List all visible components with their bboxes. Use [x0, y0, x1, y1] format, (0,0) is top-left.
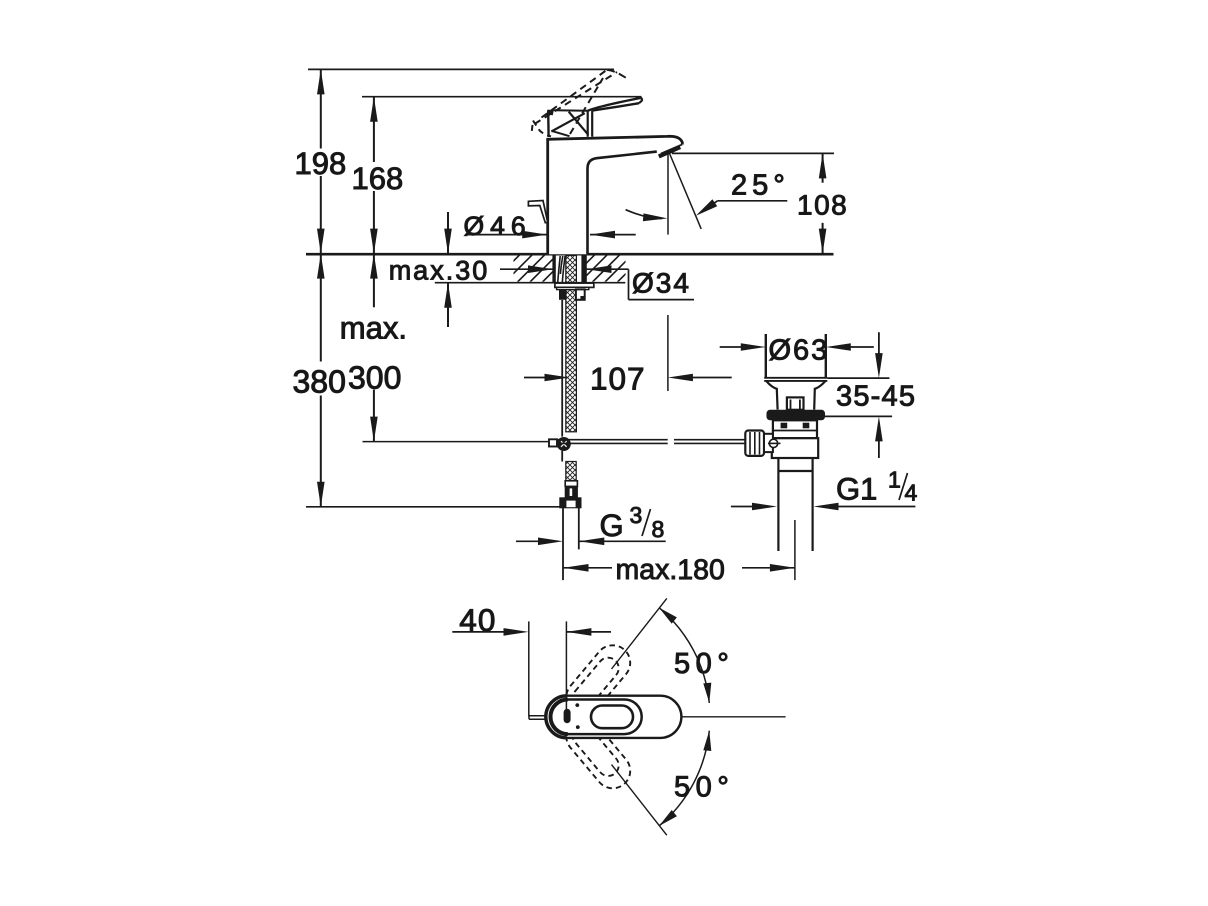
- rod connector: [764, 434, 773, 452]
- svg-text:Ø46: Ø46: [463, 211, 531, 241]
- drain plug block: [787, 397, 804, 409]
- handle lever top edge: [588, 98, 641, 111]
- dashed raised handle lever lower edge: [535, 72, 618, 124]
- ball joint: [557, 437, 571, 451]
- 40 extension line right: [565, 621, 567, 709]
- spout height reference line: [672, 152, 834, 154]
- plan outer left arc emphasis: [546, 696, 567, 738]
- drain main body: [772, 438, 818, 458]
- svg-text:198: 198: [294, 146, 346, 181]
- handle lever blade fill: [588, 98, 642, 111]
- plan handle capsule: [551, 700, 642, 735]
- svg-text:max.: max.: [340, 311, 407, 346]
- threaded stud in counter: [566, 255, 577, 282]
- dimension max.180: [564, 567, 795, 569]
- plan dashed handle down: [559, 712, 637, 796]
- drain neck taper: [767, 381, 826, 409]
- plan screw dots: [575, 703, 579, 707]
- G3/8 pipe walls: [563, 508, 579, 580]
- dimension G3/8: [516, 540, 666, 542]
- drain upper body: [773, 420, 817, 438]
- svg-text:40: 40: [459, 602, 496, 638]
- 25 degree label and leader: [705, 201, 787, 210]
- spout underside and body inner edge: [588, 152, 657, 255]
- counter hatch left: [493, 254, 571, 282]
- svg-text:G1: G1: [836, 472, 877, 507]
- reference line top (198 datum): [308, 68, 614, 70]
- plan body outer capsule: [546, 696, 682, 738]
- dimension 107: [524, 377, 732, 379]
- svg-text:4: 4: [904, 480, 917, 506]
- spout tip face line: [661, 144, 682, 153]
- svg-text:25°: 25°: [731, 170, 790, 202]
- svg-text:max.30: max.30: [389, 256, 490, 286]
- handle base top edge: [554, 109, 588, 112]
- handle inner diagonal edge: [569, 112, 589, 135]
- handle lever bottom edge: [592, 103, 639, 110]
- mounting nut left flat: [559, 289, 567, 299]
- hose end fitting: [565, 486, 577, 499]
- drain flange cup walls: [766, 334, 826, 378]
- handle base fill: [548, 111, 588, 138]
- plan left end emphasis arc: [551, 700, 568, 735]
- handle base chamfer: [553, 131, 570, 136]
- svg-text:107: 107: [590, 361, 646, 397]
- dashed raised handle neck edge: [570, 78, 603, 134]
- svg-text:max.180: max.180: [615, 554, 724, 586]
- svg-text:Ø34: Ø34: [632, 268, 691, 299]
- dimension 198: [320, 69, 322, 253]
- flexible hose upper segment: [566, 290, 577, 432]
- dimension 168: [373, 97, 375, 254]
- rod leader line: [363, 441, 549, 443]
- counter hatch right: [568, 254, 646, 282]
- handle base left edge: [547, 111, 550, 138]
- dimension 40: [452, 631, 611, 633]
- mounting nut right flat: [576, 289, 585, 299]
- 50 degree lower arc: [659, 731, 709, 826]
- svg-text:300: 300: [348, 360, 401, 396]
- bottom reference line (380 datum): [306, 506, 561, 508]
- hose curve lines in shank: [558, 256, 565, 283]
- drain washer band: [767, 410, 826, 421]
- 50 degree lower ray: [612, 765, 667, 836]
- faucet body top edge and spout tip: [546, 136, 682, 144]
- shank right wall in counter: [581, 255, 586, 282]
- handle lever tip: [639, 98, 642, 103]
- drain lever screw: [769, 439, 777, 447]
- plan view centerline: [634, 716, 786, 718]
- shank left wall in counter: [552, 255, 555, 282]
- 50 degree upper arc: [659, 608, 709, 703]
- pop-up rod left cap: [549, 439, 557, 446]
- svg-text:35-45: 35-45: [836, 381, 916, 413]
- plan handle mark blob: [564, 709, 571, 723]
- water flow curved arrow: [626, 210, 662, 219]
- 40 extension line left: [528, 621, 530, 716]
- drain cup bottom lines: [764, 378, 827, 381]
- pop-up rod segment B: [674, 440, 746, 444]
- svg-text:3: 3: [629, 502, 642, 528]
- svg-text:380: 380: [292, 364, 345, 400]
- handle inner rising diagonal: [551, 113, 585, 131]
- 40 extension line right inner segment: [565, 697, 567, 710]
- dimension diameter 34: [500, 269, 694, 299]
- dimension max.300: [373, 254, 375, 442]
- rod knurled knob: [745, 431, 764, 456]
- pop-up rod vertical line: [561, 300, 563, 462]
- handle neck fill: [588, 110, 593, 137]
- svg-text:G: G: [599, 508, 623, 543]
- drain tailpipe: [778, 458, 812, 551]
- spout outlet vertical line: [667, 150, 669, 234]
- svg-text:50°: 50°: [674, 648, 734, 680]
- plan left stub: [529, 716, 547, 720]
- dimension 108: [822, 153, 824, 253]
- pop-up rod segment A: [556, 440, 668, 444]
- reference line handle-tip (168 datum): [362, 96, 642, 98]
- faucet body fill: [548, 136, 683, 254]
- countertop line: [306, 253, 834, 256]
- pop-up knob flag on body: [528, 201, 547, 223]
- hose nut: [560, 498, 581, 508]
- dimension G1 1/4: [731, 506, 916, 508]
- faucet body left edge: [546, 139, 549, 254]
- handle pivot corner blob: [547, 110, 554, 116]
- 25 degree slant line: [668, 151, 701, 229]
- hose ferrule: [565, 481, 577, 487]
- plan dashed handle up: [559, 638, 637, 722]
- svg-text:108: 108: [797, 190, 848, 221]
- mounting washer lip: [557, 287, 589, 289]
- counter bottom line: [435, 282, 626, 284]
- mounting nut corner block: [580, 296, 584, 300]
- mounting washer plate: [555, 283, 594, 287]
- handle neck left line: [587, 111, 589, 137]
- handle neck right line: [591, 111, 593, 137]
- 50 degree upper ray: [612, 598, 667, 669]
- svg-text:50°: 50°: [674, 771, 734, 803]
- aerator face: [659, 147, 680, 156]
- plan spout hole stadium: [591, 706, 633, 729]
- dashed raised handle base edge: [532, 121, 551, 137]
- dimension diameter 46: [466, 234, 636, 236]
- svg-text:Ø63: Ø63: [768, 335, 829, 367]
- dashed raised handle lever upper edge: [542, 70, 608, 118]
- svg-text:168: 168: [351, 161, 403, 196]
- dashed raised handle tip: [607, 70, 628, 79]
- flexible hose lower segment: [566, 462, 576, 481]
- dimension max.30 (counter thickness): [447, 212, 449, 327]
- dimension diameter 63: [720, 346, 874, 348]
- spout outlet extension line: [667, 315, 669, 391]
- svg-text:8: 8: [651, 516, 664, 542]
- dimension 380: [320, 254, 322, 507]
- drain centerline extension: [794, 520, 796, 580]
- svg-text:1: 1: [888, 467, 901, 493]
- dimension 35-45: [822, 332, 893, 458]
